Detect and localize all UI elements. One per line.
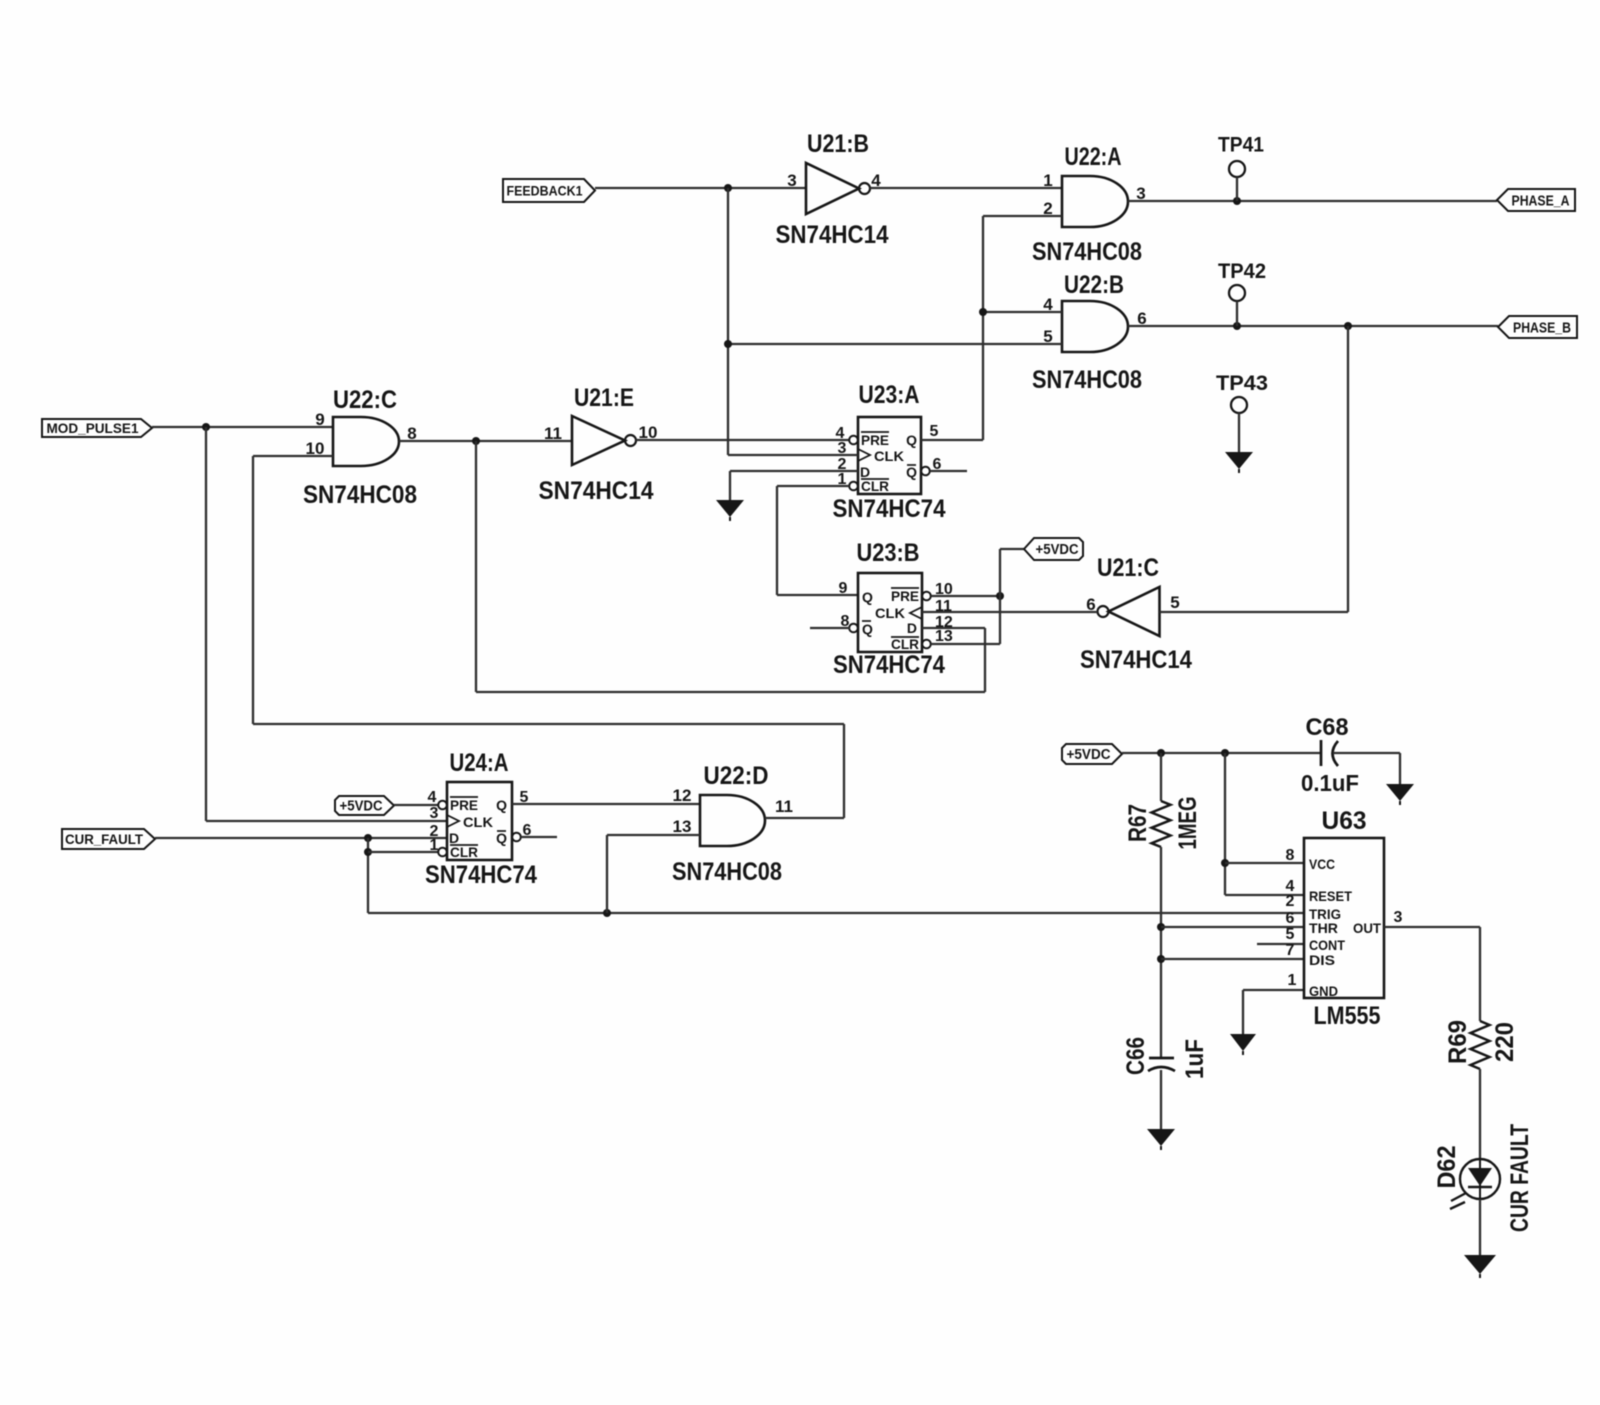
svg-text:1: 1: [1288, 972, 1297, 989]
wire PHASE_B vertical to U21:C: [1347, 326, 1349, 612]
svg-text:D62: D62: [1433, 1146, 1461, 1189]
svg-text:8: 8: [1286, 847, 1295, 864]
wire U22:D pin13 drop: [606, 835, 608, 913]
wire DIS to pin7: [1161, 958, 1304, 960]
junction TP41 tap: [1233, 197, 1241, 205]
svg-text:C66: C66: [1122, 1037, 1150, 1075]
AND gate U22:B: [1062, 301, 1128, 352]
svg-text:U21:B: U21:B: [807, 130, 869, 158]
resistor R69: [1471, 1021, 1490, 1069]
svg-text:U22:A: U22:A: [1065, 143, 1122, 171]
svg-text:U22:D: U22:D: [704, 762, 769, 790]
svg-text:TP42: TP42: [1218, 259, 1266, 283]
svg-text:Q: Q: [496, 830, 507, 846]
svg-text:SN74HC14: SN74HC14: [1080, 646, 1192, 674]
junction TP42 tap: [1233, 322, 1241, 330]
junction U22:B pin4 tap: [979, 308, 987, 316]
svg-text:PRE: PRE: [891, 588, 919, 604]
svg-text:SN74HC74: SN74HC74: [425, 861, 537, 889]
junction U22:D pin13 tap: [603, 909, 611, 917]
wire LED to ground: [1479, 1199, 1481, 1255]
svg-text:11: 11: [544, 424, 562, 443]
svg-text:9: 9: [839, 580, 848, 597]
svg-text:CONT: CONT: [1309, 937, 1345, 953]
svg-text:U23:B: U23:B: [857, 539, 920, 567]
wire RESET to pin4: [1225, 894, 1304, 896]
wire U24:A CLR input: [368, 851, 440, 853]
svg-text:Q: Q: [906, 464, 917, 480]
wire U23:A Qbar stub: [930, 470, 967, 472]
svg-text:U22:B: U22:B: [1064, 271, 1124, 299]
capacitor C66: [1122, 1037, 1209, 1079]
flip-flop U23:A: [849, 417, 930, 494]
ground LM555 ground: [1230, 1034, 1256, 1055]
node MOD_PULSE1 (input flag): [42, 419, 152, 437]
wire +5VDC vertical: [999, 549, 1001, 644]
wire MOD_PULSE1 vertical to U24:A CLK: [205, 427, 207, 821]
svg-text:C68: C68: [1306, 714, 1349, 741]
junction U22:C out tap: [472, 437, 480, 445]
wire U21:C input: [1160, 611, 1349, 613]
wire R69 to LED: [1479, 1069, 1481, 1159]
svg-text:5: 5: [1170, 593, 1179, 612]
node PHASE_B (output flag): [1498, 316, 1577, 338]
svg-text:PHASE_B: PHASE_B: [1513, 319, 1571, 336]
svg-text:5: 5: [1286, 926, 1295, 943]
svg-text:5: 5: [930, 423, 939, 440]
wire U23:A CLR link a: [777, 485, 849, 487]
LED D62: [1433, 1146, 1500, 1210]
svg-text:0.1uF: 0.1uF: [1301, 770, 1359, 796]
wire U23:B D out: [922, 627, 985, 629]
svg-text:SN74HC74: SN74HC74: [833, 495, 946, 523]
wire +5VDC rail: [1122, 752, 1320, 754]
inverter U21:C: [1098, 587, 1160, 636]
svg-text:Q: Q: [496, 797, 507, 813]
wire U22:C out drop: [475, 441, 477, 692]
wire CONT stub: [1257, 943, 1304, 945]
wire U22:A pin2 input: [983, 215, 1062, 217]
wire U23:A CLR link b: [776, 486, 778, 595]
junction VCC rail tap: [1221, 749, 1229, 757]
svg-text:+5VDC: +5VDC: [340, 799, 383, 815]
svg-text:13: 13: [935, 628, 953, 645]
AND gate U22:D: [700, 795, 765, 846]
inverter U21:B: [806, 163, 870, 214]
wire R67 top lead: [1160, 753, 1162, 801]
wire OUT drop: [1479, 927, 1481, 1021]
inverter U21:E: [572, 416, 636, 465]
svg-text:R69: R69: [1444, 1020, 1472, 1064]
wire cross feed to U23:B D: [476, 691, 985, 693]
wire U23:A Q net vertical: [982, 216, 984, 440]
svg-text:3: 3: [787, 171, 796, 190]
resistor R67: [1152, 801, 1171, 847]
ground U23:A D ground: [716, 500, 744, 521]
wire C68 gnd drop: [1399, 753, 1401, 784]
ground C68 ground: [1386, 784, 1414, 805]
svg-text:CLK: CLK: [463, 814, 493, 830]
timer U63 LM555: [1304, 838, 1384, 999]
wire U21:E out to U23:A PRE: [636, 439, 849, 441]
svg-text:2: 2: [1286, 893, 1295, 910]
svg-text:Q: Q: [906, 432, 917, 448]
junction CUR_FAULT drop: [364, 834, 372, 842]
wire U23:A CLR link c: [777, 594, 858, 596]
wire U22:B pin5 input from FEEDBACK1: [728, 343, 1062, 345]
svg-text:MOD_PULSE1: MOD_PULSE1: [47, 421, 139, 436]
svg-text:CLR: CLR: [891, 636, 919, 652]
flip-flop U23:B: [849, 573, 931, 652]
wire FEEDBACK1 to U21:B pin3: [595, 187, 806, 189]
wire U22:D pin13 input: [607, 834, 700, 836]
svg-text:U21:E: U21:E: [574, 384, 634, 412]
node PHASE_A (output flag): [1497, 189, 1575, 211]
svg-text:12: 12: [673, 786, 692, 805]
svg-text:D: D: [907, 620, 917, 636]
wire U22:D out rise: [843, 724, 845, 818]
svg-text:6: 6: [1286, 910, 1295, 927]
svg-text:3: 3: [1394, 909, 1403, 926]
wire U24:A Qbar stub: [521, 836, 557, 838]
svg-text:220: 220: [1491, 1022, 1519, 1062]
wire THR to pin6: [1161, 926, 1304, 928]
svg-text:SN74HC08: SN74HC08: [1032, 238, 1142, 266]
svg-text:U21:C: U21:C: [1097, 554, 1159, 582]
svg-text:4: 4: [428, 789, 437, 806]
wire U22:A output to PHASE_A: [1128, 200, 1497, 202]
svg-text:CLR: CLR: [450, 844, 478, 860]
test point TP41: [1218, 133, 1264, 202]
svg-text:CUR_FAULT: CUR_FAULT: [65, 832, 144, 847]
svg-text:PRE: PRE: [861, 432, 889, 448]
wire VCC drop: [1224, 753, 1226, 895]
wire U22:D feedback horizontal: [253, 723, 844, 725]
svg-text:1MEG: 1MEG: [1174, 797, 1202, 850]
wire C68 to ground: [1333, 752, 1400, 754]
svg-text:FEEDBACK1: FEEDBACK1: [507, 183, 583, 198]
wire GND pin lead: [1243, 989, 1304, 991]
wire U23:B Qbar stub: [810, 627, 850, 629]
wire U22:C pin10 input: [253, 455, 333, 457]
svg-text:SN74HC74: SN74HC74: [833, 651, 945, 679]
svg-text:TP43: TP43: [1216, 371, 1268, 395]
power +5VDC flag top of 555 circuit: [1062, 744, 1122, 764]
svg-text:U23:A: U23:A: [859, 381, 920, 409]
svg-text:PHASE_A: PHASE_A: [1512, 192, 1570, 209]
test point TP42: [1218, 259, 1266, 326]
wire OUT to R69: [1384, 926, 1480, 928]
power +5VDC flag near U24:A: [335, 796, 394, 815]
svg-text:OUT: OUT: [1353, 920, 1381, 936]
svg-text:SN74HC08: SN74HC08: [303, 481, 417, 509]
svg-text:U22:C: U22:C: [333, 386, 397, 414]
svg-text:1: 1: [430, 837, 439, 854]
junction MOD_PULSE1 drop: [202, 423, 210, 431]
svg-text:CLR: CLR: [861, 478, 889, 494]
svg-text:Q: Q: [862, 589, 873, 605]
svg-text:3: 3: [430, 805, 439, 822]
wire +5VDC to U24:A PRE: [394, 804, 440, 806]
svg-text:R67: R67: [1124, 804, 1152, 842]
svg-text:7: 7: [1286, 942, 1295, 959]
svg-text:SN74HC14: SN74HC14: [539, 477, 654, 505]
wire +5VDC link: [1000, 548, 1024, 550]
wire U22:C pin10 rise: [252, 456, 254, 724]
svg-text:11: 11: [775, 797, 793, 816]
svg-text:GND: GND: [1309, 983, 1338, 999]
svg-text:+5VDC: +5VDC: [1067, 747, 1111, 763]
svg-text:PRE: PRE: [450, 797, 478, 813]
svg-text:SN74HC14: SN74HC14: [776, 221, 889, 249]
svg-text:9: 9: [315, 410, 324, 429]
svg-text:TP41: TP41: [1218, 133, 1264, 157]
ground TP43 ground: [1225, 452, 1253, 473]
wire U23:B CLR to +5VDC: [931, 643, 1000, 645]
wire GND drop: [1242, 990, 1244, 1034]
node CUR_FAULT (input flag): [62, 829, 155, 849]
junction R67 tap: [1157, 749, 1165, 757]
wire VCC to pin8: [1225, 862, 1304, 864]
svg-text:+5VDC: +5VDC: [1036, 542, 1079, 558]
svg-text:1: 1: [1043, 171, 1052, 190]
svg-text:U63: U63: [1322, 807, 1367, 835]
wire U23:A D drop to gnd: [729, 471, 731, 500]
svg-text:SN74HC08: SN74HC08: [672, 858, 782, 886]
wire CUR_FAULT to U24:A D: [155, 837, 447, 839]
power +5VDC flag near U23:B: [1024, 538, 1083, 560]
test point TP43: [1216, 371, 1268, 452]
junction DIS tap: [1157, 955, 1165, 963]
wire U21:C out to U23:B CLK: [922, 611, 1098, 613]
ground LED ground: [1464, 1255, 1496, 1278]
wire FEEDBACK1 vertical drop: [727, 188, 729, 455]
capacitor C68: [1301, 714, 1359, 796]
wire TRIG long line: [368, 912, 1304, 914]
wire U22:D output: [765, 817, 844, 819]
svg-text:DIS: DIS: [1309, 952, 1335, 968]
wire U21:B out to U22:A pin1: [870, 187, 1062, 189]
wire U23:B PRE to +5VDC: [931, 595, 1000, 597]
svg-text:CUR FAULT: CUR FAULT: [1506, 1124, 1534, 1232]
wire U24:A CLK input: [206, 820, 447, 822]
svg-text:SN74HC08: SN74HC08: [1032, 366, 1142, 394]
wire R67 bottom lead / THR net: [1160, 847, 1162, 1057]
junction U23:B PRE junction: [996, 592, 1004, 600]
wire U23:A Q output: [921, 439, 983, 441]
ground C66 ground: [1147, 1129, 1175, 1150]
junction FEEDBACK1/pin5 junction: [724, 340, 732, 348]
node FEEDBACK1 (input flag): [503, 179, 595, 202]
svg-text:THR: THR: [1309, 920, 1338, 936]
wire U23:B D rise: [984, 628, 986, 692]
svg-text:CLK: CLK: [874, 448, 904, 464]
svg-text:CLK: CLK: [875, 605, 905, 621]
wire MOD_PULSE1 to U22:C pin9: [152, 426, 333, 428]
junction CLR tap: [364, 848, 372, 856]
wire CUR_FAULT vertical: [367, 838, 369, 913]
svg-text:Q: Q: [862, 621, 873, 637]
wire U22:B pin4 input: [983, 311, 1062, 313]
wire C66 bottom lead: [1160, 1070, 1162, 1129]
svg-text:VCC: VCC: [1309, 856, 1335, 872]
svg-text:1uF: 1uF: [1181, 1039, 1209, 1079]
junction THR tap: [1157, 923, 1165, 931]
junction FEEDBACK1/vertical: [724, 184, 732, 192]
wire U23:A CLK from FEEDBACK1: [728, 454, 858, 456]
flip-flop U24:A: [438, 782, 521, 860]
svg-text:LM555: LM555: [1314, 1002, 1381, 1030]
junction VCC tap: [1221, 859, 1229, 867]
wire U22:C output to U21:E: [399, 440, 572, 442]
wire U22:B output to PHASE_B: [1128, 325, 1498, 327]
junction PHASE_B/U21:C tap: [1344, 322, 1352, 330]
svg-text:RESET: RESET: [1309, 888, 1352, 904]
svg-text:U24:A: U24:A: [450, 749, 509, 777]
wire U23:A D input: [730, 470, 858, 472]
AND gate U22:C: [333, 417, 399, 466]
svg-text:13: 13: [673, 817, 692, 836]
wire U24:A Q to U22:D pin12: [512, 803, 700, 805]
AND gate U22:A: [1062, 176, 1128, 227]
